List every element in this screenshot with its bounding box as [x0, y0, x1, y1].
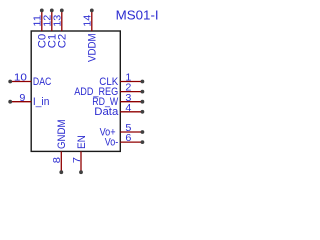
svg-text:MS01-I: MS01-I — [116, 9, 159, 23]
svg-text:Data: Data — [94, 106, 118, 118]
pin 10 wire — [10, 81, 31, 83]
pin 13 dot — [60, 9, 64, 13]
pin 6 wire — [120, 141, 142, 143]
pin 5 wire — [120, 131, 142, 133]
svg-text:Vo-: Vo- — [105, 136, 119, 148]
pin 4 wire — [120, 111, 142, 113]
pin 7 wire — [80, 151, 82, 172]
svg-text:6: 6 — [125, 133, 131, 144]
pin 2 wire — [120, 91, 142, 93]
pin 14 dot — [90, 9, 94, 13]
svg-text:DAC: DAC — [33, 76, 52, 88]
IC U1 body rectangle — [31, 31, 120, 151]
svg-text:14: 14 — [83, 15, 94, 27]
pin 9 dot — [8, 100, 12, 104]
pin 11 dot — [40, 9, 44, 13]
pin 12 wire — [51, 10, 53, 31]
pin 1 wire — [120, 81, 142, 83]
pin 12 dot — [50, 9, 54, 13]
pin 6 dot — [141, 140, 145, 144]
svg-text:8: 8 — [52, 157, 63, 163]
svg-text:EN: EN — [76, 135, 88, 149]
svg-text:GNDM: GNDM — [56, 120, 68, 150]
pin 10 dot — [8, 80, 12, 84]
pin 4 dot — [141, 110, 145, 114]
svg-text:13: 13 — [53, 15, 64, 27]
pin 3 wire — [120, 101, 142, 103]
pin 1 dot — [141, 80, 145, 84]
pin 11 wire — [41, 10, 43, 31]
svg-text:9: 9 — [19, 93, 25, 104]
pin 9 wire — [10, 101, 31, 103]
svg-text:VDDM: VDDM — [86, 33, 98, 62]
pin 5 dot — [141, 130, 145, 134]
pin 2 dot — [141, 90, 145, 94]
svg-text:7: 7 — [72, 157, 83, 163]
pin 7 dot — [79, 170, 83, 174]
pin 13 wire — [61, 10, 63, 31]
pin 8 wire — [60, 151, 62, 172]
svg-text:I_in: I_in — [33, 96, 50, 108]
pin 8 dot — [59, 170, 63, 174]
pin 14 wire — [91, 10, 93, 31]
pin 3 dot — [141, 100, 145, 104]
svg-text:10: 10 — [14, 73, 27, 84]
svg-text:4: 4 — [125, 103, 131, 114]
svg-text:C2: C2 — [56, 34, 68, 49]
